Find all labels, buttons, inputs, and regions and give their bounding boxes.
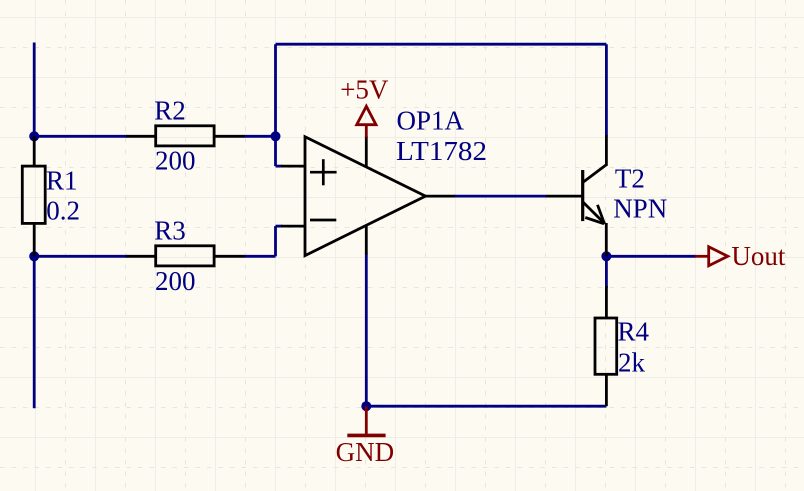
power +5V symbol xyxy=(357,106,376,137)
label T2 type NPN xyxy=(613,194,667,224)
wire emitter to R4 xyxy=(605,256,608,288)
label +5V xyxy=(340,75,389,105)
resistor R4 xyxy=(595,286,617,406)
label R4 value xyxy=(618,347,646,377)
resistor R1 xyxy=(22,136,45,256)
op-amp pin -IN xyxy=(281,225,305,228)
label op-amp part LT1782 xyxy=(396,136,487,166)
svg-text:NPN: NPN xyxy=(613,194,667,224)
wire row B left segment xyxy=(34,255,127,258)
label R4 designator xyxy=(618,317,650,347)
svg-text:R2: R2 xyxy=(154,96,186,126)
svg-text:Uout: Uout xyxy=(731,241,785,271)
svg-text:200: 200 xyxy=(155,146,196,176)
label R2 value xyxy=(155,146,196,176)
op-amp pin +IN xyxy=(281,165,305,168)
transistor Q T2 xyxy=(546,135,607,256)
ground GND symbol xyxy=(347,406,385,435)
svg-text:OP1A: OP1A xyxy=(397,106,465,136)
svg-text:+5V: +5V xyxy=(340,75,389,105)
op-amp pin V+ xyxy=(365,136,368,167)
wire bottom ground rail xyxy=(366,405,606,408)
wire feedback vertical at x=275.5 xyxy=(274,44,277,136)
node junction feedback / +input xyxy=(271,131,281,141)
label R1 value xyxy=(46,195,80,225)
node junction emitter / Uout xyxy=(601,251,611,261)
op-amp U1 body xyxy=(305,137,426,256)
svg-text:R4: R4 xyxy=(618,317,650,347)
label R2 designator xyxy=(154,96,186,126)
wire feedback top horizontal xyxy=(276,43,607,46)
label T2 designator xyxy=(615,164,645,194)
op-amp pin OUT xyxy=(426,195,455,198)
wire row A left segment xyxy=(34,135,127,138)
wire jog to op-amp -input xyxy=(276,226,283,256)
wire row A right segment xyxy=(244,135,277,138)
label R3 value xyxy=(155,266,196,296)
op-amp pin V- xyxy=(365,226,368,255)
wire left vertical bus xyxy=(33,43,36,409)
wire jog to op-amp +input xyxy=(276,136,283,166)
label GND xyxy=(336,437,395,467)
label R1 designator xyxy=(46,166,78,196)
node junction ground rail / GND xyxy=(361,401,371,411)
wire op-amp V- down to ground rail xyxy=(365,254,368,407)
label Uout xyxy=(731,241,785,271)
wire emitter node to Uout port xyxy=(606,255,696,258)
svg-text:0.2: 0.2 xyxy=(46,195,80,225)
label op-amp designator OP1A xyxy=(397,106,465,136)
resistor R3 xyxy=(126,246,245,266)
resistor R2 xyxy=(126,126,245,146)
svg-text:T2: T2 xyxy=(615,164,645,194)
wire feedback vertical to collector xyxy=(605,44,608,136)
svg-text:LT1782: LT1782 xyxy=(396,136,487,166)
port Uout xyxy=(695,247,728,266)
svg-text:200: 200 xyxy=(155,266,196,296)
node junction row B / R1 bottom xyxy=(29,251,39,261)
svg-text:2k: 2k xyxy=(618,347,646,377)
wire op-amp output to transistor base xyxy=(454,195,546,198)
svg-text:R3: R3 xyxy=(154,216,186,246)
wire row B right segment xyxy=(244,255,276,258)
svg-text:R1: R1 xyxy=(46,166,78,196)
node junction row A / R1 top xyxy=(29,131,39,141)
svg-text:GND: GND xyxy=(336,437,395,467)
label R3 designator xyxy=(154,216,186,246)
